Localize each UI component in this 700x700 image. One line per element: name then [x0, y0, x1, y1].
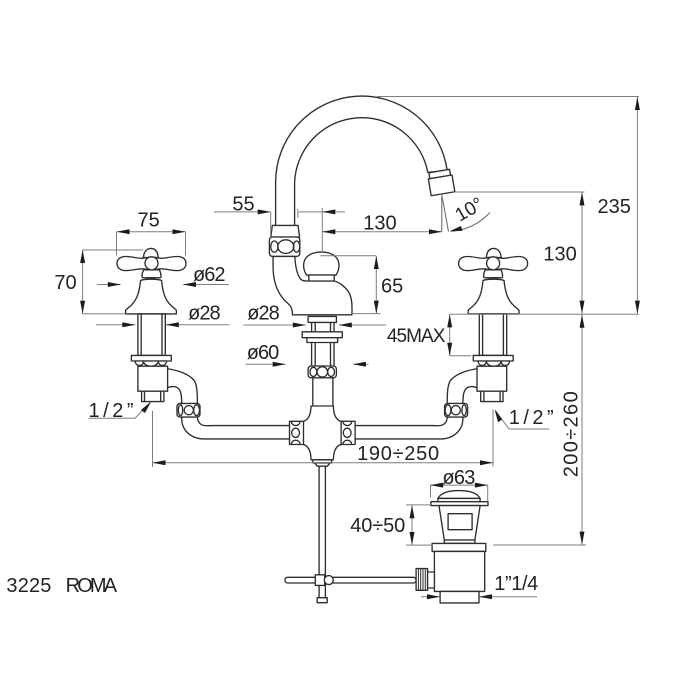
spout gooseneck tube — [276, 96, 448, 228]
cross handle arms — [117, 257, 186, 271]
svg-text:55: 55 — [232, 193, 254, 215]
dimension 55 — [214, 208, 345, 253]
svg-text:130: 130 — [543, 243, 576, 265]
svg-text:ø28: ø28 — [188, 303, 221, 325]
svg-text:130: 130 — [363, 213, 396, 235]
pop-up ball — [324, 576, 333, 585]
center shank pipes lower — [312, 343, 334, 367]
svg-text:1”1/4: 1”1/4 — [494, 573, 538, 595]
cross bottom step — [313, 460, 332, 463]
dimension 1 1/4 inch — [421, 596, 537, 598]
drain top flange — [431, 502, 488, 506]
spout aerator band — [427, 169, 454, 196]
left union nut — [177, 403, 200, 417]
svg-text:40÷50: 40÷50 — [350, 515, 405, 537]
valve stem — [138, 314, 165, 356]
valve flange beads — [135, 361, 167, 366]
dimension diameter 60 — [246, 363, 369, 365]
center body knob band — [309, 275, 334, 281]
drain knurled nut — [416, 569, 428, 591]
faucet center body — [273, 256, 352, 314]
drain upper body — [439, 506, 480, 540]
spout collar bead right — [293, 241, 299, 252]
dimension 200-260 — [493, 315, 586, 545]
pop-up rod vertical — [319, 466, 325, 598]
label 1/2 inch left — [89, 403, 151, 419]
dimension 130 top — [322, 231, 442, 233]
svg-text:10°: 10° — [452, 194, 487, 227]
dimension 70 line — [83, 250, 143, 314]
center shank flange — [308, 316, 336, 322]
label 1/2 inch right — [496, 411, 549, 429]
dimension 45MAX — [450, 314, 472, 356]
center escutcheon band — [307, 338, 338, 343]
svg-text:235: 235 — [598, 196, 631, 218]
svg-text:3225: 3225 — [6, 575, 51, 597]
handle neck — [147, 278, 155, 281]
dimension diameter 62 — [97, 284, 229, 286]
svg-text:200÷260: 200÷260 — [561, 391, 583, 477]
handle bell — [126, 279, 177, 314]
drain cap rim — [438, 498, 480, 501]
left handle group — [117, 248, 186, 401]
svg-text:ø28: ø28 — [247, 303, 279, 325]
center shank pipes upper — [312, 322, 334, 331]
svg-text:75: 75 — [138, 209, 160, 231]
center pipe to cross — [313, 378, 333, 406]
right supply pipe — [355, 369, 483, 439]
svg-text:65: 65 — [381, 275, 403, 297]
spout collar bead center — [278, 240, 294, 254]
drain cap dome — [438, 491, 480, 499]
spout collar bead left — [271, 241, 278, 252]
dimension 75 line — [117, 232, 186, 256]
svg-text:ROMA: ROMA — [66, 575, 118, 597]
pop-up joint block — [315, 575, 324, 586]
dimension 65 — [320, 256, 380, 314]
cross bottom stem — [315, 463, 330, 466]
handle hub circle — [145, 257, 158, 270]
spout top extension line — [377, 96, 639, 98]
drain window — [448, 514, 472, 530]
valve flange — [131, 355, 171, 361]
left supply pipe — [162, 369, 290, 439]
dimension 130 right — [581, 192, 583, 313]
spout collar top trapezoid — [271, 225, 300, 237]
pop-up horizontal rod — [285, 577, 416, 583]
dimension 235 — [636, 97, 638, 314]
center bead joint — [308, 366, 336, 378]
svg-text:1/2”: 1/2” — [509, 407, 554, 429]
handle bottom arm — [142, 270, 161, 278]
drain locknut — [432, 543, 486, 551]
drain nut stub — [428, 572, 435, 588]
svg-text:ø63: ø63 — [442, 467, 475, 489]
drain lower body — [434, 551, 484, 591]
right union nut — [445, 403, 468, 417]
valve body — [138, 366, 168, 391]
spout collar bead ring — [269, 237, 299, 256]
pop-up rod end cap — [317, 598, 327, 603]
handle top dome — [143, 248, 158, 257]
right handle group — [459, 248, 528, 401]
valve nipple 1/2 — [142, 391, 164, 401]
svg-text:190÷250: 190÷250 — [357, 443, 439, 465]
deck extension line — [450, 313, 639, 315]
svg-text:ø60: ø60 — [247, 342, 279, 364]
spout aerator body — [428, 175, 454, 196]
drain tailpipe — [440, 591, 479, 603]
angle 10 degrees lines — [442, 195, 490, 232]
dimension diameter 63 — [430, 485, 488, 501]
cross right collar — [341, 421, 355, 444]
dimension diameter 28 left — [96, 324, 229, 326]
svg-text:ø62: ø62 — [193, 264, 226, 286]
aerator extension line — [455, 191, 585, 193]
center escutcheon plate — [302, 332, 342, 338]
dimension 190-250 — [153, 410, 494, 468]
cross left collar — [290, 421, 304, 444]
svg-text:45MAX: 45MAX — [387, 326, 446, 347]
dimension 40-50 — [406, 505, 433, 545]
center body knob dome — [304, 252, 339, 275]
dimension diameter 28 center — [243, 324, 386, 326]
cross fitting body — [303, 406, 341, 460]
svg-text:70: 70 — [54, 272, 76, 294]
drain body band — [444, 540, 475, 543]
